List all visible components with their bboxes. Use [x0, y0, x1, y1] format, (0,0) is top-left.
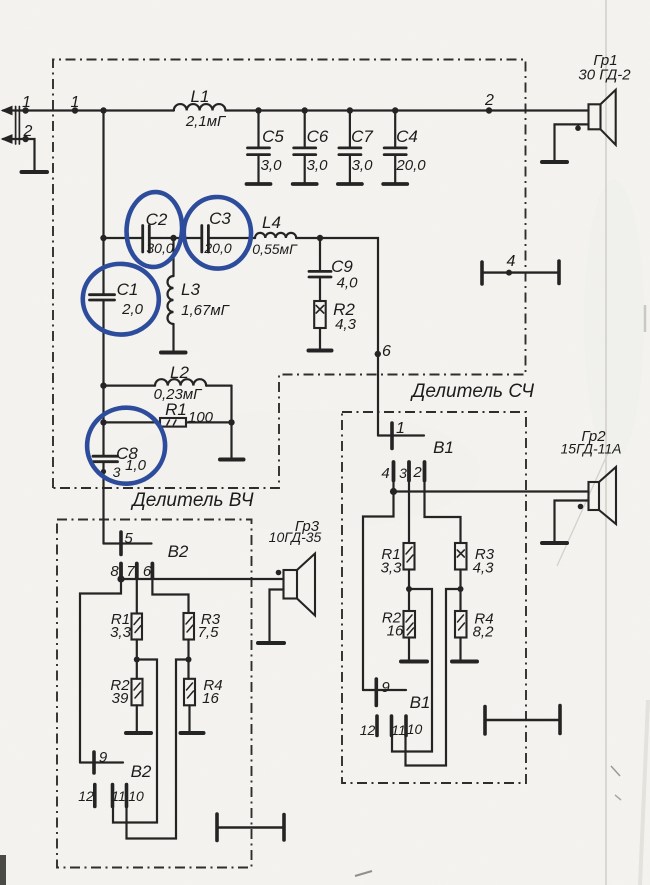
- wire top rail left of L1: [3, 109, 174, 111]
- speaker Гр3 10ГД-35: [270, 554, 316, 643]
- wire tick6 to R3: [152, 578, 188, 613]
- svg-text:B1: B1: [410, 693, 431, 712]
- input arrow pin 2: [2, 135, 12, 143]
- svg-text:C2: C2: [146, 210, 168, 229]
- svg-text:15ГД-11А: 15ГД-11А: [561, 441, 622, 457]
- svg-text:4,3: 4,3: [473, 560, 495, 577]
- ground (input): [22, 170, 48, 174]
- capacitor C1 2,0: [90, 295, 115, 300]
- wire tick7 down to R1: [136, 578, 138, 614]
- wire left branch down: [102, 111, 104, 239]
- svg-text:39: 39: [112, 690, 129, 707]
- svg-text:7: 7: [126, 563, 135, 580]
- svg-text:0,55мГ: 0,55мГ: [252, 241, 298, 257]
- svg-text:1,67мГ: 1,67мГ: [181, 302, 230, 319]
- wire junction R1/R2 to terminal 11 (B2): [113, 660, 157, 823]
- wire to C2: [104, 237, 143, 239]
- dash-dot boundary: B1 box (Делитель СЧ): [342, 412, 526, 783]
- svg-text:C5: C5: [262, 127, 284, 146]
- wire R1-R2 junction: [408, 570, 410, 612]
- node (R1/R2 junction B2): [134, 657, 140, 663]
- resistor R1 3,3 (B1): [404, 543, 415, 570]
- wire B1 node to Гр2: [394, 490, 589, 492]
- inductor L3 1,67мГ: [168, 238, 174, 352]
- svg-text:12: 12: [360, 722, 376, 738]
- svg-text:1: 1: [396, 420, 405, 437]
- svg-text:1: 1: [71, 94, 80, 111]
- resistor R4 16 (B2): [184, 679, 195, 732]
- svg-text:8: 8: [110, 563, 119, 580]
- dash-dot boundary: upper crossover box: [53, 60, 526, 489]
- svg-text:2: 2: [23, 123, 33, 140]
- node (left, C2 row): [100, 235, 106, 241]
- inductor L2 0,23мГ: [104, 379, 232, 385]
- svg-text:2: 2: [412, 464, 422, 481]
- B1 contact ticks 4,3,2: [394, 462, 425, 481]
- node (R1/R2 junction B1): [406, 586, 412, 592]
- wire tick2 to R3: [425, 480, 461, 543]
- blue circle around C8: [87, 408, 165, 484]
- capacitor C6 3,0: [293, 107, 317, 184]
- svg-text:L3: L3: [181, 280, 200, 299]
- speaker Гр2 15ГД-11А: [555, 467, 617, 542]
- svg-text:L2: L2: [170, 363, 189, 382]
- svg-text:30 ГД-2: 30 ГД-2: [578, 67, 631, 84]
- speaker Гр1 30ГД-2: [555, 90, 616, 161]
- svg-text:C6: C6: [307, 127, 329, 146]
- svg-text:B2: B2: [131, 762, 152, 781]
- wire B1 node to terminal 9: [363, 492, 394, 691]
- B2 contact ticks 8,7,6: [121, 564, 152, 579]
- svg-text:C9: C9: [331, 257, 353, 276]
- svg-text:B2: B2: [168, 542, 189, 561]
- wire junction R1/R2 to terminal 11 (B1): [392, 589, 432, 752]
- capacitor C8 1,0: [93, 456, 118, 462]
- resistor R1 3,3 (B2): [132, 614, 143, 640]
- svg-text:10: 10: [407, 721, 423, 737]
- wire B2 node to terminal 9: [80, 579, 121, 763]
- node (C2/C3/L3 junction): [170, 235, 176, 241]
- svg-text:3,0: 3,0: [352, 157, 374, 174]
- svg-text:2,1мГ: 2,1мГ: [185, 113, 227, 130]
- svg-text:9: 9: [99, 749, 108, 766]
- terminal ticks 12,11,10 (B2): [95, 785, 127, 807]
- wire pin 2: [3, 139, 35, 171]
- capacitor C3 20,0: [202, 226, 209, 253]
- ground (under L2/R1 leg): [220, 458, 244, 462]
- ground (under R2): [309, 349, 332, 353]
- node (B2 output): [117, 575, 124, 582]
- inductor L1 2,1мГ: [174, 104, 226, 110]
- svg-text:6: 6: [382, 343, 391, 360]
- ground (B1 R4): [452, 660, 477, 664]
- node 2 dot (input): [22, 136, 28, 142]
- node (L2 left): [100, 382, 106, 388]
- wire junction R3/R4 to terminal 10 (B1): [406, 589, 461, 766]
- H link symbol (B2 bottom right): [217, 814, 284, 841]
- svg-text:3,0: 3,0: [261, 157, 283, 174]
- wire junction R3/R4 to terminal 10 (B2): [127, 660, 189, 839]
- svg-text:C7: C7: [351, 127, 373, 146]
- node (C9 branch): [317, 235, 323, 241]
- input arrow pin 1: [2, 106, 12, 114]
- svg-text:2,0: 2,0: [121, 301, 144, 318]
- svg-text:4: 4: [507, 253, 516, 270]
- svg-text:C1: C1: [117, 280, 139, 299]
- node (R3/R4 junction B1): [458, 586, 464, 592]
- resistor R1 100: [104, 418, 232, 427]
- svg-text:R1: R1: [165, 400, 187, 419]
- svg-text:C4: C4: [396, 127, 418, 146]
- svg-text:3,3: 3,3: [110, 624, 132, 641]
- wire R3-R4 junction: [459, 570, 461, 612]
- resistor R2 4,3 (marked x): [314, 301, 326, 349]
- svg-text:6: 6: [143, 563, 152, 580]
- ground (Гр1): [542, 160, 567, 164]
- resistor R2 39 (B2): [132, 679, 143, 732]
- svg-text:5: 5: [124, 530, 133, 547]
- wire R1-R2 junction (B2): [136, 640, 138, 679]
- node (R1 left): [100, 419, 106, 425]
- svg-text:11: 11: [111, 788, 126, 804]
- wire L4 to corner, down to B1 terminal 1: [296, 238, 378, 436]
- H link symbol (B1 bottom right): [485, 706, 560, 735]
- svg-text:11: 11: [391, 722, 406, 738]
- capacitor C5 3,0: [247, 107, 271, 184]
- resistor R4 8,2 (B1): [455, 611, 467, 661]
- svg-text:3: 3: [113, 464, 121, 480]
- svg-text:3,3: 3,3: [381, 560, 403, 577]
- terminal 9 (B1): [363, 679, 406, 706]
- svg-text:4,0: 4,0: [337, 275, 359, 292]
- capacitor C2 30,0: [143, 226, 150, 253]
- svg-text:B1: B1: [433, 438, 454, 457]
- resistor R3 7,5 (B2): [184, 613, 195, 640]
- svg-text:C3: C3: [209, 209, 231, 228]
- wire C2 to node: [150, 237, 174, 239]
- node 1 (outer): [22, 107, 28, 113]
- terminal ticks 12,11,10 (B1): [377, 716, 406, 736]
- wire B2 node to Гр3: [121, 578, 284, 580]
- wire R3-R4 junction (B2): [187, 640, 189, 679]
- wire C3 to L4: [209, 237, 255, 239]
- svg-text:L4: L4: [262, 213, 281, 232]
- wire node to C3: [174, 237, 202, 239]
- B1 terminal 1: [378, 423, 424, 449]
- svg-text:3,0: 3,0: [307, 157, 329, 174]
- svg-text:4,3: 4,3: [335, 316, 357, 333]
- resistor R3 4,3 (B1, marked x): [455, 543, 467, 570]
- node junction left branch: [100, 107, 106, 113]
- svg-text:100: 100: [188, 409, 214, 426]
- connector X1: [16, 107, 20, 145]
- node 6: [375, 351, 381, 357]
- capacitor C4 20,0: [383, 107, 407, 184]
- svg-text:1,0: 1,0: [125, 457, 147, 474]
- node 2 (to Гр1): [486, 107, 492, 113]
- inductor L4 0,55мГ: [255, 233, 296, 238]
- wire left branch through C1,C8 down to terminal 5: [102, 238, 104, 544]
- ground (Гр2): [542, 541, 567, 545]
- svg-text:10ГД-35: 10ГД-35: [269, 529, 322, 545]
- blue circle around C2: [124, 190, 184, 269]
- svg-text:Делитель СЧ: Делитель СЧ: [410, 381, 534, 402]
- capacitor C7 3,0: [338, 107, 362, 184]
- svg-text:10: 10: [128, 788, 144, 804]
- svg-text:9: 9: [381, 679, 390, 696]
- svg-text:8,2: 8,2: [473, 624, 495, 641]
- terminal 5 (B2): [104, 532, 152, 555]
- ground (Гр3): [258, 641, 284, 645]
- node (B1 output): [390, 488, 397, 495]
- dash-dot boundary: B2 box (Делитель ВЧ): [57, 520, 252, 868]
- node (R1 right): [228, 419, 234, 425]
- node 1 (inner): [72, 107, 78, 113]
- ground (under L3): [161, 351, 186, 355]
- node 3: [101, 469, 106, 474]
- node (R3/R4 junction B2): [186, 657, 192, 663]
- svg-text:16: 16: [202, 690, 219, 707]
- ground (B2 R2): [126, 731, 151, 735]
- blue circle around C1: [81, 262, 161, 336]
- terminal 9 (B2): [80, 752, 123, 773]
- svg-text:16: 16: [387, 623, 404, 640]
- terminal 4 symbol: [482, 261, 559, 284]
- svg-text:7,5: 7,5: [198, 624, 220, 641]
- svg-text:2: 2: [484, 92, 494, 109]
- svg-text:4: 4: [381, 465, 389, 482]
- capacitor C9 4,0: [309, 238, 331, 301]
- wire top rail right of L1 to speaker Гр1: [225, 109, 588, 111]
- svg-text:30,0: 30,0: [146, 240, 173, 256]
- svg-text:Делитель ВЧ: Делитель ВЧ: [130, 490, 253, 511]
- svg-text:L1: L1: [191, 87, 210, 106]
- svg-text:20,0: 20,0: [203, 240, 231, 256]
- resistor R2 16 (B1): [404, 611, 416, 661]
- wire L2/R1 right leg: [230, 386, 232, 458]
- ground (B2 R4): [181, 731, 204, 735]
- blue circle around C3: [181, 195, 253, 271]
- ground (B1 R2): [401, 660, 427, 664]
- wire tick4 to node: [392, 480, 394, 492]
- svg-text:1: 1: [22, 94, 31, 111]
- svg-text:20,0: 20,0: [395, 157, 426, 174]
- svg-text:3: 3: [399, 465, 407, 481]
- wire tick3 down to R1: [408, 480, 410, 543]
- svg-text:12: 12: [78, 788, 94, 804]
